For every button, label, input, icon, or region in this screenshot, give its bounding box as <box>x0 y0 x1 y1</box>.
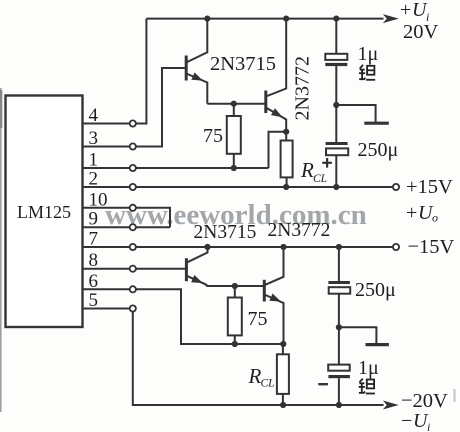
svg-text:+15V: +15V <box>406 176 453 198</box>
svg-text:6: 6 <box>89 271 99 292</box>
svg-text:o: o <box>432 211 438 225</box>
svg-text:2N3715: 2N3715 <box>210 53 276 75</box>
svg-text:3: 3 <box>89 128 99 149</box>
svg-text:9: 9 <box>89 209 99 230</box>
svg-text:−: − <box>401 410 412 432</box>
svg-text:2N3772: 2N3772 <box>292 56 314 120</box>
svg-text:−20V: −20V <box>401 390 448 412</box>
svg-text:250μ: 250μ <box>358 139 399 161</box>
svg-text:CL: CL <box>261 378 275 390</box>
svg-text:8: 8 <box>89 250 99 271</box>
svg-text:R: R <box>248 364 262 388</box>
svg-text:2N3772: 2N3772 <box>268 220 331 241</box>
svg-text:+: + <box>406 202 417 224</box>
svg-text:1: 1 <box>89 150 99 171</box>
svg-text:LM125: LM125 <box>17 202 71 222</box>
svg-text:10: 10 <box>89 189 108 210</box>
svg-text:75: 75 <box>248 308 268 330</box>
svg-text:1μ: 1μ <box>358 43 379 65</box>
svg-text:20V: 20V <box>403 21 439 43</box>
svg-text:2: 2 <box>89 169 99 190</box>
svg-text:i: i <box>427 420 430 432</box>
svg-text:5: 5 <box>89 290 99 311</box>
svg-text:−15V: −15V <box>408 236 455 258</box>
svg-text:1μ: 1μ <box>358 357 379 379</box>
svg-text:250μ: 250μ <box>355 279 396 301</box>
svg-text:+: + <box>400 0 411 21</box>
svg-text:75: 75 <box>203 125 223 147</box>
svg-text:CL: CL <box>313 173 327 185</box>
svg-text:2N3715: 2N3715 <box>194 222 257 243</box>
svg-text:4: 4 <box>89 105 99 126</box>
svg-text:7: 7 <box>89 229 99 250</box>
svg-text:R: R <box>300 158 314 182</box>
